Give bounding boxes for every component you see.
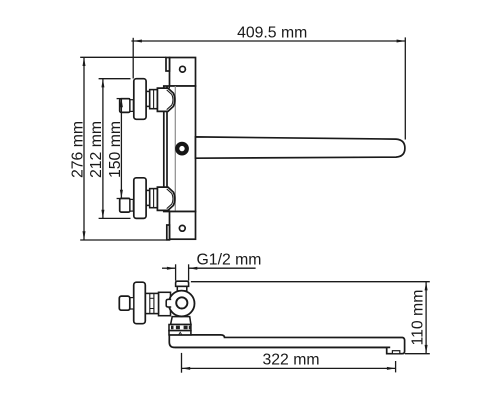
arrowhead 409.5mm left [133,40,142,43]
side view G1/2 stub [176,281,189,286]
screw hole top [180,66,186,72]
dim 322mm dimension line [182,367,396,369]
wall plate bar chamfer line [174,86,176,212]
dim G1/2 extension line right [188,264,190,280]
valve 2 dome inner contour [167,189,173,209]
arrowhead 409.5mm right [397,40,406,43]
side view collar band A [169,325,191,331]
valve 1 handle knob [134,79,146,120]
valve 2 bonnet seam [153,189,155,208]
side view valve body circle [169,291,195,317]
dim 322mm extension line right [395,361,397,372]
dim 409.5mm extension line right [404,37,406,139]
side view limiter bump outline [166,299,171,307]
valve 1 bonnet small [146,91,150,106]
arrowhead 150mm bottom [120,190,123,199]
side view supply nut [119,296,130,310]
valve 2 escutcheon dome [157,187,174,210]
svg-text:110 mm: 110 mm [410,290,427,346]
spout top view [196,137,405,158]
dim 322mm extension line left [181,353,183,373]
svg-text:212 mm: 212 mm [88,121,105,178]
arrowhead G1/2 left [167,267,176,270]
svg-text:409.5 mm: 409.5 mm [237,25,307,42]
side view limiter bump [166,299,171,307]
valve 1 dome inner contour [167,90,173,110]
side view bonnet band line top [150,297,154,299]
side view bonnet seam 1 [149,293,151,313]
valve 1 bonnet seam [153,90,155,109]
valve 2 bonnet large [150,189,158,208]
side view band A thread dash 2 [176,326,180,330]
arrowhead 110mm bottom [425,345,428,354]
side view stub neck [177,286,187,291]
valve 1 supply nut [120,99,130,113]
arrowhead 110mm top [425,282,428,291]
dim 409.5mm extension line left [132,38,134,79]
side view handle knob [134,282,146,324]
valve 1 nut lip [130,100,133,112]
arrowhead 150mm top [120,99,123,108]
valve 1 escutcheon dome [157,88,174,111]
dim 276mm extension line bottom [80,239,170,241]
dim 276mm dimension line [83,57,85,240]
dim 150mm tick top [117,98,130,100]
side view collar band B [169,331,191,335]
valve 2 supply nut [120,198,130,212]
wall plate bar inner edge [166,86,168,212]
screw hole bottom [179,225,185,231]
arrowhead 212mm top [101,79,104,88]
side view spout bottom edge [175,346,391,348]
dim 150mm dimension line [120,99,122,199]
dim 212mm extension line bottom [99,217,131,219]
valve 2 nut lip [130,199,133,211]
dim 409.5mm dimension line [131,40,405,42]
side view band A thread dash 3 [184,326,188,330]
dim 110mm extension line bottom [405,353,430,355]
dim 212mm extension line top [99,78,131,80]
wall plate bar [164,86,196,212]
arrowhead 212mm bottom [101,210,104,219]
dim G1/2 extension line left [175,264,177,280]
plate seam tick top [168,86,170,88]
arrowhead 276mm bottom [83,231,86,240]
valve 2 bonnet small [146,190,150,205]
wall plate top tab strip [166,58,170,72]
valve 1 bonnet large [150,90,158,109]
plate seam tick bottom [168,210,170,211]
side view cartridge block [159,292,171,315]
svg-text:276 mm: 276 mm [69,121,86,178]
wall plate top tab [170,58,196,87]
wall plate bottom tab strip [167,225,170,240]
valve 2 handle knob [134,178,146,219]
svg-text:G1/2 mm: G1/2 mm [197,251,262,268]
dim 212mm dimension line [102,79,104,219]
dim 110mm extension line top [191,281,430,283]
dim 150mm tick bottom [117,198,130,200]
center hole dark ring [177,144,187,154]
arrowhead 322mm right [387,367,396,370]
side view spout body with aerator [169,335,404,354]
dim G1/2 dimension line left tail [162,267,176,269]
arrowhead 322mm left [182,367,191,370]
arrowhead 276mm top [83,57,86,66]
arrowhead G1/2 right [189,267,198,270]
side view band A thread dash 1 [171,326,174,330]
aerator inner window [392,351,399,354]
dim 110mm dimension line [425,282,427,354]
svg-text:322 mm: 322 mm [262,352,319,369]
wall plate bottom tab [170,212,196,240]
side view bonnet band line bottom [150,308,154,310]
side view inner ring [176,297,187,308]
side view lower neck trapezoid [171,317,191,325]
side view band A thread dash 4 [189,326,191,330]
dim 276mm extension line top [80,56,166,58]
side view band B seam notch [179,332,182,334]
dim G1/2 leader line [189,267,256,269]
side view bonnet seam 2 [153,293,155,313]
side view nut lip [130,298,134,309]
side view bonnet stack [145,293,158,313]
